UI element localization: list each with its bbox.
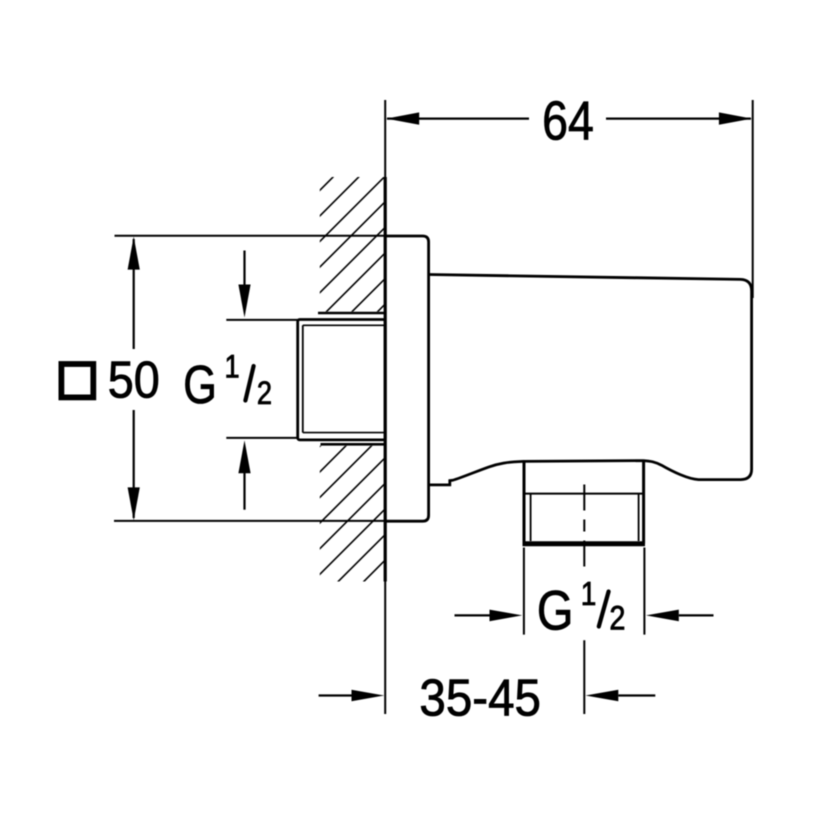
outlet port thread line left: [530, 495, 532, 542]
port dim arrow lower (pointing up): [243, 473, 245, 510]
inlet port thread line bottom: [303, 432, 385, 434]
dimension line 50 (upper segment): [133, 239, 135, 349]
label G 1/2 (inlet) : denominator 2: [257, 376, 272, 412]
G1/2 outlet dim extension line left: [523, 548, 525, 635]
label G 1/2 (outlet) : denominator 2: [609, 598, 625, 637]
G1/2 outlet dim left arrow: [455, 614, 491, 616]
outlet centerline (dashed upper): [583, 485, 585, 567]
label G 1/2 (inlet) : numerator 1: [224, 349, 239, 385]
extension line: 50 dim top: [115, 235, 386, 237]
svg-text:G: G: [183, 356, 217, 416]
wall extension line for 35-45: [384, 582, 386, 715]
escutcheon flange: [385, 236, 428, 521]
dimension line 64 (right segment): [606, 117, 751, 119]
label G 1/2 (outlet) : fraction slash: [599, 592, 609, 627]
label G 1/2 (inlet) : fraction slash: [245, 366, 253, 401]
svg-text:1: 1: [224, 349, 239, 385]
label G 1/2 (outlet) : numerator 1: [581, 576, 597, 613]
label 50: [108, 351, 160, 409]
G1/2 outlet dim right arrow: [679, 614, 714, 616]
inlet port thread line left: [302, 325, 304, 432]
extension line: 64 dim at wall: [384, 100, 386, 177]
35-45 dim left arrow: [319, 694, 353, 696]
label G 1/2 (outlet) : G: [537, 579, 574, 642]
square symbol (square 50): [61, 364, 93, 397]
label 35-45: [419, 669, 541, 727]
svg-text:1: 1: [581, 576, 597, 613]
35-45 dim right arrow: [618, 694, 655, 696]
main body outline: [429, 275, 752, 485]
svg-text:G: G: [537, 579, 574, 642]
label 64: [542, 90, 594, 151]
port dim extension line bottom: [226, 437, 298, 439]
outlet port right edge: [642, 461, 645, 544]
inlet port thread line top: [303, 324, 385, 326]
dimension line 50 (lower segment): [133, 410, 135, 518]
arrowhead 50 down: [128, 487, 140, 520]
outlet port left edge: [523, 461, 526, 543]
arrowhead 64 right: [719, 112, 752, 124]
outlet port thread line right: [638, 495, 640, 542]
svg-text:2: 2: [609, 598, 625, 637]
svg-text:64: 64: [542, 90, 594, 151]
extension line: 64 dim at body right: [752, 100, 754, 298]
inlet port outer body: [298, 320, 386, 440]
svg-text:2: 2: [257, 376, 272, 412]
wall surface line: [384, 177, 387, 582]
arrowhead 64 left: [386, 112, 419, 124]
G1/2 outlet dim extension line right: [643, 548, 645, 635]
wall cutout edge (above inlet port): [318, 312, 385, 315]
port dim arrow upper (pointing down): [243, 251, 245, 289]
wall cutout edge (below inlet port): [321, 443, 386, 446]
svg-text:50: 50: [108, 351, 160, 409]
outlet port thread shoulder line: [524, 493, 644, 495]
label G 1/2 (inlet) : G: [183, 356, 217, 416]
dimension line 64 (left segment): [387, 117, 529, 119]
outlet port bottom heavy edge: [523, 541, 646, 546]
extension line: 50 dim bottom: [114, 520, 385, 522]
port dim extension line top: [226, 319, 298, 321]
outlet centerline (lower solid): [583, 640, 585, 714]
svg-text:35-45: 35-45: [419, 669, 541, 727]
arrowhead 50 up: [128, 237, 140, 270]
